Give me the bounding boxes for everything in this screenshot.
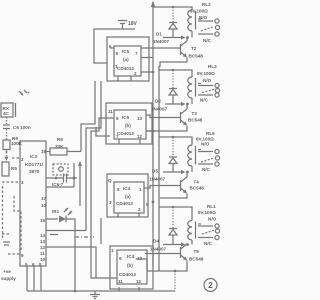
wire IC5(b) lower left pin xyxy=(96,127,110,136)
relay RL2 coil xyxy=(188,10,192,31)
wire IC4(a) bottom stubs xyxy=(118,213,139,217)
dash-dot continuation mark xyxy=(75,236,94,238)
wire IR1 to bend xyxy=(66,219,75,231)
svg-text:IC4: IC4 xyxy=(123,186,131,191)
svg-text:T3: T3 xyxy=(192,111,198,116)
svg-text:RL5: RL5 xyxy=(206,131,215,136)
wire emitter return g2 xyxy=(146,126,187,132)
wire collector node g1 with arrow xyxy=(163,35,186,39)
svg-text:+ve: +ve xyxy=(3,269,11,274)
wire bend down to ground bus xyxy=(74,231,76,292)
wire IC2 pin5 to bus xyxy=(26,266,28,291)
relay RL1 core bar xyxy=(195,222,197,239)
svg-text:13: 13 xyxy=(40,239,46,244)
svg-text:T2: T2 xyxy=(191,46,197,51)
svg-text:(b): (b) xyxy=(125,123,131,128)
svg-text:1: 1 xyxy=(111,248,114,253)
junction dot rail at y72 xyxy=(152,71,155,74)
svg-text:1N4007: 1N4007 xyxy=(153,39,170,44)
wire C7 cap to node xyxy=(67,177,78,179)
wire dotted to D1 xyxy=(172,7,174,23)
diode D2 xyxy=(169,89,177,105)
op flip-flop IC5(a) feedback loop wire xyxy=(107,37,149,81)
dashed box C7 network xyxy=(53,164,68,175)
wire coil feed g1 xyxy=(153,7,192,10)
junction dot g4 coil bottom xyxy=(186,243,189,246)
wire IC5(a) set to rail xyxy=(141,71,153,73)
svg-text:11: 11 xyxy=(40,251,45,256)
transistor T5 xyxy=(181,244,188,261)
supply rail vertical xyxy=(152,5,154,267)
wire clock chain IC5b down xyxy=(91,118,117,278)
svg-text:KD1771/: KD1771/ xyxy=(25,162,44,167)
diode IR1 xyxy=(59,216,66,223)
junction dot g1 coil bottom xyxy=(186,36,189,39)
svg-text:N/C: N/C xyxy=(204,241,213,246)
svg-text:BC548: BC548 xyxy=(190,186,205,191)
junction dot g1 tap xyxy=(172,6,175,9)
svg-text:9: 9 xyxy=(116,116,119,121)
svg-text:16: 16 xyxy=(41,149,47,154)
flip-flop IC4(a) feedback loop wire xyxy=(107,174,148,217)
supply rail arrow top xyxy=(151,1,155,8)
wire coil feed g2 xyxy=(159,70,192,77)
wire collector node g2 with arrow xyxy=(165,102,186,106)
svg-text:Q: Q xyxy=(108,178,112,183)
transistor T2 xyxy=(181,38,188,58)
flip-flop IC4(b) feedback loop wire xyxy=(110,246,153,289)
svg-text:1N4007: 1N4007 xyxy=(149,177,166,182)
wire IC2 pin8 to bus xyxy=(40,266,42,291)
svg-text:C6 100n: C6 100n xyxy=(13,125,31,130)
svg-text:12: 12 xyxy=(136,279,142,284)
wire to IC2 pin3 dashed xyxy=(2,181,20,183)
wire coil bottom g1 xyxy=(191,31,193,38)
wire +18V feed to IC5(a) loop xyxy=(94,29,135,63)
figure number circle 2 xyxy=(204,279,217,292)
transistor T3 xyxy=(181,104,188,126)
relay RL2 core bar xyxy=(195,11,197,30)
wire clock chain IC5a to R6 node xyxy=(81,81,95,152)
ground bus wire xyxy=(27,290,175,292)
svg-text:N/O: N/O xyxy=(201,142,210,147)
svg-text:N/C: N/C xyxy=(200,98,209,103)
svg-text:RL1: RL1 xyxy=(207,204,216,209)
relay RL3 coil xyxy=(188,77,192,98)
arrow junction below R9 xyxy=(5,157,9,162)
wire clock chain long IC5a down xyxy=(86,81,101,231)
svg-text:1: 1 xyxy=(139,187,142,192)
svg-text:9: 9 xyxy=(21,253,24,258)
wire IC5(b) bottom stubs xyxy=(119,139,140,144)
svg-text:(b): (b) xyxy=(127,263,133,268)
diode D5 xyxy=(169,157,177,172)
svg-text:15: 15 xyxy=(40,218,46,223)
junction dot g4 tap xyxy=(172,206,175,209)
svg-text:IC6-7: IC6-7 xyxy=(52,182,64,187)
relay RL1 contact N/O xyxy=(198,224,219,228)
wire T3 base xyxy=(146,115,181,118)
wire IC5(a) pin6 stub to rail xyxy=(141,57,153,59)
dashed stub left xyxy=(2,233,9,235)
wire IC5(b) set to rail xyxy=(146,130,153,132)
wire IC2 pin2 dashed xyxy=(12,157,20,159)
svg-text:IC4: IC4 xyxy=(127,254,135,259)
wire coil feed g4 xyxy=(159,207,192,221)
svg-text:9V,100Ω: 9V,100Ω xyxy=(190,9,208,14)
resistor R9 body xyxy=(3,140,10,150)
svg-text:D5: D5 xyxy=(152,169,158,174)
relay RL2 contact N/O xyxy=(198,19,219,23)
wire sensor to C6 dotted xyxy=(6,117,8,124)
svg-text:BC548: BC548 xyxy=(189,257,204,262)
wire T4 base xyxy=(144,186,181,189)
svg-text:IR1: IR1 xyxy=(52,209,60,214)
second rail vertical xyxy=(158,66,160,271)
wire IC2 pin12 to IC4(b) pin11 xyxy=(46,247,96,278)
svg-text:CD4013: CD4013 xyxy=(116,201,133,206)
svg-text:IC2: IC2 xyxy=(30,154,38,159)
wire dotted to D4 xyxy=(172,207,174,229)
wire IC5(a) clock stub xyxy=(110,47,114,49)
svg-text:CD4013: CD4013 xyxy=(117,131,134,136)
wire emitter return g4 xyxy=(147,261,187,272)
wire IC2 lower pin to node xyxy=(46,186,74,188)
svg-text:11: 11 xyxy=(108,109,113,114)
svg-text:RL2: RL2 xyxy=(202,2,211,7)
wire IC2 pin14 dash xyxy=(50,234,58,236)
svg-text:12: 12 xyxy=(40,245,46,250)
svg-text:N/O: N/O xyxy=(199,15,208,20)
svg-text:CD4013: CD4013 xyxy=(119,272,136,277)
svg-text:11: 11 xyxy=(118,279,123,284)
svg-text:(a): (a) xyxy=(125,194,131,199)
wire T5 base xyxy=(145,253,181,255)
capacitor mark left bottom xyxy=(3,242,10,245)
svg-text:6V,100Ω: 6V,100Ω xyxy=(198,210,216,215)
flip-flop IC5(a) CD4013 body xyxy=(114,46,141,76)
wire IC2 pin6 to bus xyxy=(33,266,35,291)
wire IC2 pin to IR1 xyxy=(46,218,58,220)
svg-text:N/O: N/O xyxy=(208,217,217,222)
diode D4 xyxy=(169,229,177,245)
IR sensor module box xyxy=(1,103,13,117)
transistor T4 xyxy=(181,172,188,194)
diode D1 xyxy=(169,23,177,38)
junction dot rail y202 xyxy=(152,201,155,204)
svg-text:5: 5 xyxy=(117,187,120,192)
svg-text:17: 17 xyxy=(41,196,47,201)
wire T2 base xyxy=(141,47,181,49)
wire IC2 lower to bend xyxy=(46,230,86,232)
wire C6 to R9 dotted xyxy=(6,129,8,141)
svg-text:R5: R5 xyxy=(11,166,17,171)
junction dot left xyxy=(55,177,58,180)
wire coil bottom g4 xyxy=(191,240,193,245)
wire dashed return left xyxy=(14,196,21,251)
svg-text:(a): (a) xyxy=(123,57,129,62)
wire IC4(a) outer stub down xyxy=(100,218,102,244)
wire dotted to D2 xyxy=(172,70,174,89)
wire coil feed g3 xyxy=(159,137,192,145)
junction dot rail at y131 xyxy=(152,130,155,133)
svg-text:5: 5 xyxy=(116,51,119,56)
wire IC2 to C7 cap xyxy=(46,177,63,179)
svg-text:12: 12 xyxy=(137,134,143,139)
wire dotted return to ground bus xyxy=(174,271,176,291)
junction dot bus xyxy=(74,290,77,293)
svg-text:13: 13 xyxy=(137,116,143,121)
wire R9 to arrow xyxy=(6,150,8,157)
arrowhead up xyxy=(78,161,82,166)
relay RL1 coil xyxy=(188,221,192,241)
svg-text:10: 10 xyxy=(41,203,47,208)
junction dot below R9 xyxy=(6,151,8,153)
svg-text:4C: 4C xyxy=(3,111,10,116)
wire coil bottom g2 xyxy=(191,98,193,104)
wire IC4(b) Q feedback down xyxy=(136,259,147,271)
svg-text:1: 1 xyxy=(115,64,118,69)
wire dashed left edge xyxy=(2,186,4,238)
svg-text:5: 5 xyxy=(146,202,149,207)
resistor R5 body xyxy=(2,162,9,176)
wire R6 to clock column xyxy=(67,151,81,153)
wire emitter return g1 xyxy=(160,58,187,68)
svg-text:BC548: BC548 xyxy=(188,118,203,123)
svg-text:7: 7 xyxy=(135,51,138,56)
relay RL5 core bar xyxy=(195,146,197,165)
svg-text:D1: D1 xyxy=(156,32,162,37)
junction dot g2 tap xyxy=(172,69,175,72)
svg-text:IC5: IC5 xyxy=(122,115,130,120)
junction dot g4 return xyxy=(174,270,177,273)
capacitor C7 at +18V tap xyxy=(118,21,127,30)
svg-text:R6: R6 xyxy=(57,137,63,142)
svg-text:N/C: N/C xyxy=(202,167,211,172)
svg-text:CD4013: CD4013 xyxy=(117,66,134,71)
svg-text:T5: T5 xyxy=(194,249,200,254)
svg-text:RL3: RL3 xyxy=(208,64,217,69)
ground symbol xyxy=(90,291,100,299)
junction dot g2 coil bottom xyxy=(186,103,189,106)
IR1 emit arrows xyxy=(64,208,72,215)
wire IC4(b) pin12 to bus xyxy=(138,287,140,291)
svg-text:D4: D4 xyxy=(153,239,159,244)
flip-flop IC5(b) CD4013 body xyxy=(114,110,146,139)
svg-text:18V: 18V xyxy=(128,21,138,27)
junction dot g3 tap xyxy=(172,136,175,139)
svg-text:9V,100Ω: 9V,100Ω xyxy=(197,71,215,76)
svg-text:T4: T4 xyxy=(194,180,200,185)
component inside dashed box xyxy=(59,167,64,172)
svg-text:2: 2 xyxy=(21,157,24,162)
svg-text:supply: supply xyxy=(1,276,16,281)
svg-text:N/O: N/O xyxy=(203,78,212,83)
wire collector node g4 with arrow xyxy=(163,242,186,246)
flip-flop IC5(b) feedback loop wire xyxy=(106,103,152,144)
capacitor C7 plates xyxy=(64,174,67,183)
wire collector node g3 with arrow xyxy=(163,170,186,174)
wire dotted to D5 xyxy=(172,137,174,157)
relay RL5 contact N/O xyxy=(198,149,219,153)
svg-text:2: 2 xyxy=(138,207,141,212)
IC KD1771 decoder IC2 body xyxy=(20,141,46,266)
relay RL3 contact N/O xyxy=(198,83,219,87)
wire to +V arrow xyxy=(79,164,81,206)
flip-flop IC4(a) CD4013 body xyxy=(114,182,144,213)
wire emitter return g3 xyxy=(160,194,187,199)
wire IC5(a) bottom stubs xyxy=(118,76,131,81)
svg-text:IC5: IC5 xyxy=(122,49,130,54)
junction dot g3 coil bottom xyxy=(186,171,189,174)
svg-text:D2: D2 xyxy=(155,99,161,104)
svg-text:N/C: N/C xyxy=(203,38,212,43)
relay RL3 core bar xyxy=(195,78,197,97)
svg-text:14: 14 xyxy=(40,233,46,238)
flip-flop IC4(b) CD4013 body xyxy=(117,250,147,284)
svg-text:1N4007: 1N4007 xyxy=(151,107,168,112)
svg-text:100K: 100K xyxy=(11,141,23,146)
wire IC4(b) pin11 to bus xyxy=(118,287,120,291)
svg-text:9: 9 xyxy=(119,256,122,261)
resistor R6 body xyxy=(50,148,67,155)
IR signal arrows xyxy=(19,90,29,96)
svg-text:3: 3 xyxy=(21,180,24,185)
capacitor C6 xyxy=(3,125,10,129)
svg-text:3: 3 xyxy=(109,200,112,205)
relay RL5 coil xyxy=(188,145,192,166)
svg-text:2: 2 xyxy=(134,71,137,76)
svg-text:BC548: BC548 xyxy=(189,54,204,59)
junction dot C7 node xyxy=(73,177,76,180)
svg-text:2: 2 xyxy=(208,281,213,290)
wire IC2 pin16 to R6 xyxy=(46,151,50,153)
svg-text:1N4007: 1N4007 xyxy=(150,247,167,252)
resistor R6 labels xyxy=(55,137,64,149)
wire coil bottom g3 xyxy=(191,166,193,172)
svg-text:7: 7 xyxy=(116,134,119,139)
wire dashed IC2 pin9 xyxy=(8,253,20,255)
svg-text:3870: 3870 xyxy=(29,169,40,174)
junction dot g2 return rail xyxy=(152,130,155,133)
IR sensor lens bar xyxy=(15,103,17,117)
wire C7 node vertical xyxy=(73,163,75,187)
